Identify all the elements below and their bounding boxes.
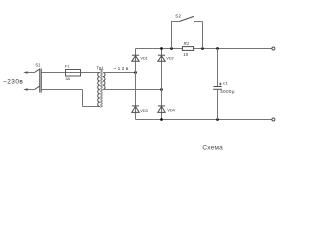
node right column top rail: [160, 47, 163, 50]
svg-text:F1: F1: [65, 64, 70, 69]
node S2 branch left: [170, 47, 173, 50]
label VD2: [166, 56, 173, 60]
diode VD2: [158, 55, 165, 61]
label S2: [175, 13, 181, 18]
svg-text:3A: 3A: [65, 76, 70, 81]
diode VD1: [132, 55, 139, 61]
label Tr1: [97, 65, 105, 70]
svg-text:VD4: VD4: [167, 109, 174, 113]
label VD1: [140, 56, 147, 60]
node S2 branch right: [201, 47, 204, 50]
node C1 top: [216, 47, 219, 50]
transformer Tr1: [98, 69, 105, 108]
wire bridge left column: [135, 49, 137, 120]
label R1: [184, 41, 190, 46]
wire secondary top to bridge left column: [103, 72, 136, 74]
wire switch to transformer primary top (through fuse): [41, 72, 100, 74]
svg-text:VD1: VD1: [140, 56, 147, 60]
node junction secondary bottom / right column: [160, 88, 163, 91]
switch S2 bypass branch: [172, 16, 203, 48]
capacitor C1: [213, 49, 222, 120]
wire switch bottom to corner: [41, 89, 82, 91]
diode VD4: [158, 106, 165, 113]
label Schema: [202, 145, 223, 152]
node junction secondary top / left column: [134, 71, 137, 74]
switch S1: [23, 69, 41, 93]
svg-text:S2: S2: [175, 13, 181, 18]
svg-text:S1: S1: [35, 63, 41, 68]
diode VD3: [132, 106, 139, 113]
label plus polarity: [219, 83, 222, 86]
terminal output minus: [272, 118, 275, 121]
label C1: [223, 81, 229, 86]
wire bottom rail: [136, 119, 273, 121]
node right column bottom rail: [160, 118, 163, 121]
wire top rail: [136, 48, 273, 50]
svg-text:R1: R1: [184, 41, 190, 46]
wire bridge right column: [161, 49, 163, 120]
label VD4: [167, 109, 174, 113]
label F1: [65, 64, 70, 69]
wire corner down: [82, 90, 84, 107]
resistor R1: [182, 47, 193, 51]
svg-text:3000μ: 3000μ: [220, 89, 235, 94]
label 3000u: [220, 89, 235, 94]
svg-text:10: 10: [183, 52, 188, 57]
svg-text:Схема: Схема: [202, 145, 223, 152]
label 3A: [65, 76, 70, 81]
label S1: [35, 63, 41, 68]
label VD3: [140, 109, 147, 113]
terminal output plus: [272, 47, 275, 50]
label 10: [183, 52, 188, 57]
node C1 bottom: [216, 118, 219, 121]
label ~230V mains: [3, 79, 23, 86]
svg-text:~12в: ~12в: [113, 66, 129, 72]
wire secondary bottom to bridge right column: [103, 89, 162, 91]
svg-text:~230в: ~230в: [3, 79, 23, 86]
wire corner to transformer primary bottom: [83, 106, 100, 108]
fuse F1: [66, 70, 81, 77]
svg-text:C1: C1: [223, 81, 229, 86]
svg-text:VD3: VD3: [140, 109, 147, 113]
svg-text:VD2: VD2: [166, 56, 173, 60]
svg-text:Тр1: Тр1: [97, 65, 105, 70]
label ~12V: [113, 66, 129, 72]
